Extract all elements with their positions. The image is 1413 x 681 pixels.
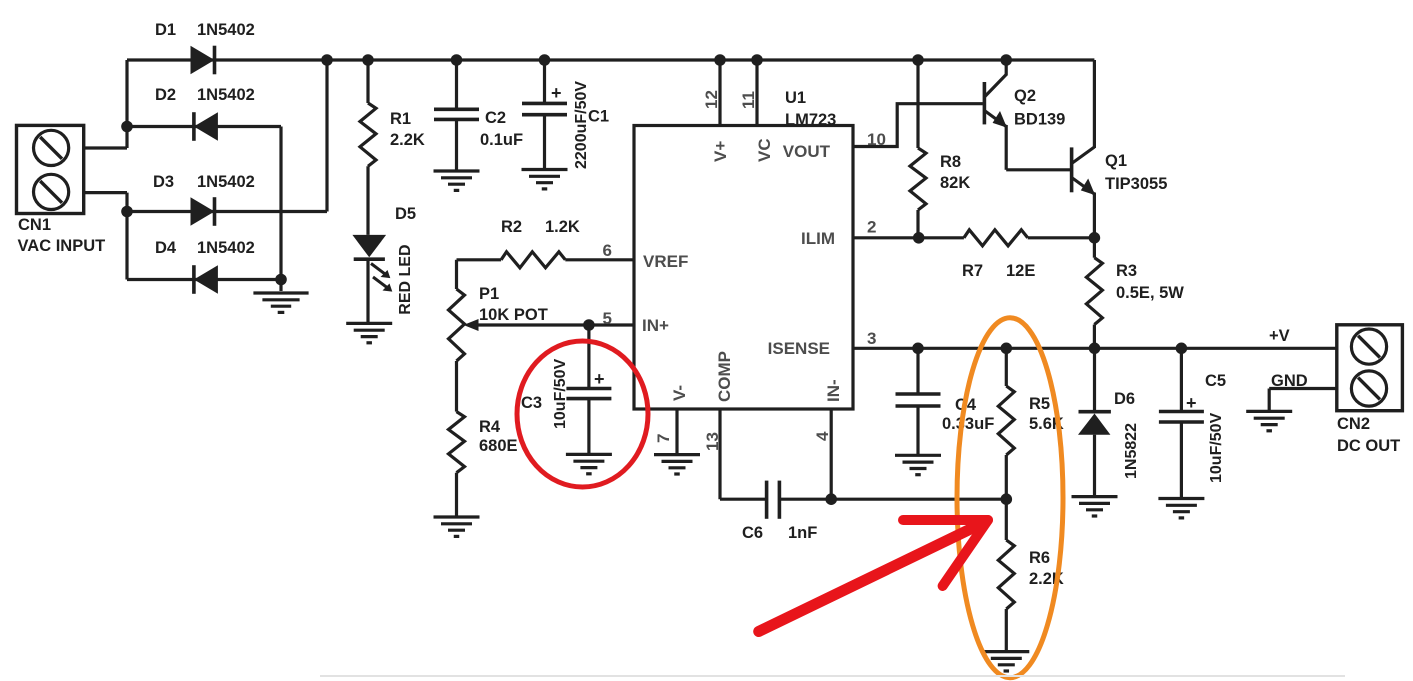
svg-text:VREF: VREF <box>643 252 688 271</box>
svg-text:VOUT: VOUT <box>783 142 831 161</box>
svg-text:1.2K: 1.2K <box>545 218 580 236</box>
svg-text:+: + <box>1186 393 1197 413</box>
svg-text:CN2: CN2 <box>1337 415 1370 433</box>
svg-text:C6: C6 <box>742 524 763 542</box>
svg-text:LM723: LM723 <box>785 111 836 129</box>
svg-text:R5: R5 <box>1029 395 1050 413</box>
svg-text:1N5822: 1N5822 <box>1123 423 1140 479</box>
svg-text:BD139: BD139 <box>1014 110 1065 128</box>
svg-text:C1: C1 <box>588 108 609 126</box>
svg-text:COMP: COMP <box>715 351 734 402</box>
svg-text:R2: R2 <box>501 218 522 236</box>
svg-text:DC OUT: DC OUT <box>1337 437 1400 455</box>
svg-text:D3: D3 <box>153 173 174 191</box>
svg-text:D6: D6 <box>1114 390 1135 408</box>
svg-text:R7: R7 <box>962 262 983 280</box>
svg-text:5: 5 <box>603 309 612 328</box>
svg-text:10: 10 <box>867 130 886 149</box>
svg-text:10uF/50V: 10uF/50V <box>552 358 569 429</box>
svg-text:680E: 680E <box>479 437 518 455</box>
svg-text:1N5402: 1N5402 <box>197 21 255 39</box>
svg-text:2200uF/50V: 2200uF/50V <box>573 81 590 169</box>
svg-text:10K POT: 10K POT <box>479 306 548 324</box>
svg-text:82K: 82K <box>940 174 970 192</box>
svg-text:D5: D5 <box>395 205 416 223</box>
svg-text:C3: C3 <box>521 394 542 412</box>
svg-text:R8: R8 <box>940 153 961 171</box>
svg-text:ISENSE: ISENSE <box>768 339 830 358</box>
svg-text:C5: C5 <box>1205 372 1226 390</box>
svg-text:R3: R3 <box>1116 262 1137 280</box>
svg-text:Q2: Q2 <box>1014 87 1036 105</box>
svg-text:12E: 12E <box>1006 262 1035 280</box>
svg-text:D2: D2 <box>155 86 176 104</box>
svg-text:10uF/50V: 10uF/50V <box>1208 412 1225 483</box>
svg-text:CN1: CN1 <box>18 216 51 234</box>
svg-text:12: 12 <box>702 90 721 109</box>
svg-text:R4: R4 <box>479 418 501 436</box>
svg-text:P1: P1 <box>479 285 499 303</box>
svg-text:U1: U1 <box>785 89 806 107</box>
svg-text:+: + <box>551 83 562 103</box>
svg-text:V-: V- <box>670 385 689 401</box>
svg-text:D1: D1 <box>155 21 176 39</box>
svg-text:VC: VC <box>755 138 774 162</box>
svg-text:1nF: 1nF <box>788 524 817 542</box>
svg-text:1N5402: 1N5402 <box>197 239 255 257</box>
svg-text:GND: GND <box>1271 372 1308 390</box>
svg-text:13: 13 <box>703 432 722 451</box>
svg-text:0.33uF: 0.33uF <box>942 415 994 433</box>
svg-text:IN-: IN- <box>824 379 843 402</box>
svg-text:+: + <box>594 369 605 389</box>
svg-text:4: 4 <box>813 431 832 441</box>
svg-text:IN+: IN+ <box>642 316 669 335</box>
svg-text:2.2K: 2.2K <box>390 131 425 149</box>
svg-text:ILIM: ILIM <box>801 229 835 248</box>
svg-text:R6: R6 <box>1029 549 1050 567</box>
svg-text:11: 11 <box>739 91 758 109</box>
svg-text:RED LED: RED LED <box>397 244 414 314</box>
svg-text:D4: D4 <box>155 239 177 257</box>
svg-text:0.1uF: 0.1uF <box>480 131 523 149</box>
svg-text:0.5E, 5W: 0.5E, 5W <box>1116 284 1184 302</box>
svg-text:VAC INPUT: VAC INPUT <box>18 237 106 255</box>
svg-text:1N5402: 1N5402 <box>197 86 255 104</box>
svg-text:+V: +V <box>1269 327 1290 345</box>
svg-text:C2: C2 <box>485 109 506 127</box>
svg-text:V+: V+ <box>711 141 730 162</box>
svg-text:TIP3055: TIP3055 <box>1105 175 1167 193</box>
svg-text:R1: R1 <box>390 110 411 128</box>
svg-text:1N5402: 1N5402 <box>197 173 255 191</box>
svg-text:3: 3 <box>867 329 876 348</box>
svg-text:2: 2 <box>867 218 876 237</box>
svg-text:Q1: Q1 <box>1105 152 1127 170</box>
svg-text:7: 7 <box>654 434 673 443</box>
svg-text:6: 6 <box>603 241 612 260</box>
